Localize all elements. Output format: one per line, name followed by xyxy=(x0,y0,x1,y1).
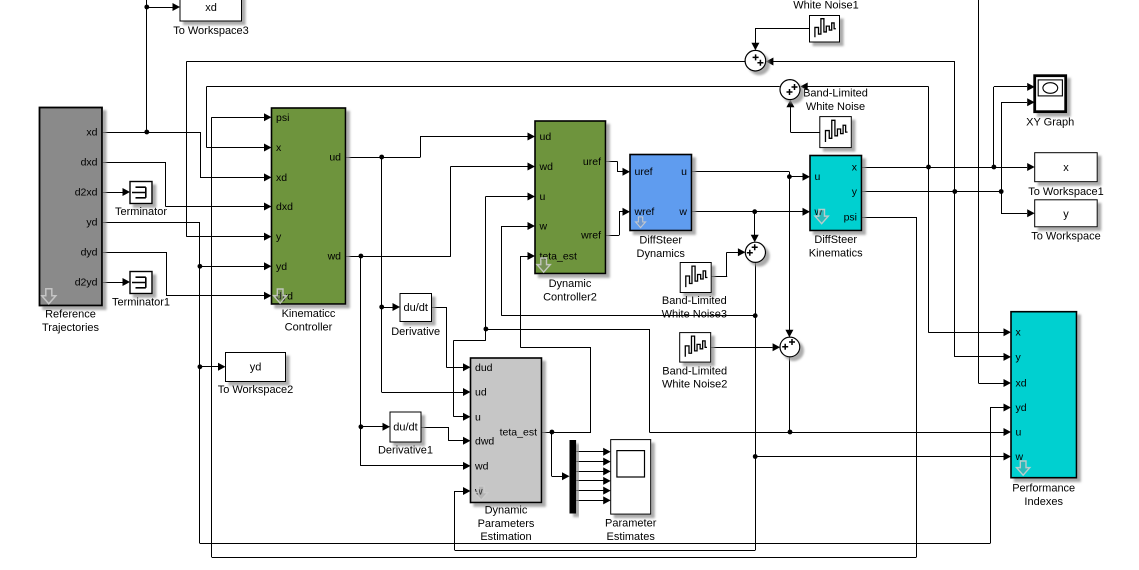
svg-text:dxd: dxd xyxy=(276,201,293,213)
svg-text:x: x xyxy=(1063,162,1069,174)
svg-text:Estimates: Estimates xyxy=(607,531,656,543)
wire d2xd from Reference to Terminator xyxy=(102,188,130,196)
label DiffSteer Kinematics xyxy=(809,234,863,259)
label Dynamic Controller2 xyxy=(543,278,597,303)
label Dynamic Parameters Estimation xyxy=(478,505,535,544)
svg-text:psi: psi xyxy=(844,212,857,224)
svg-text:Dynamic: Dynamic xyxy=(485,505,528,517)
svg-text:xd: xd xyxy=(86,127,97,139)
svg-text:u: u xyxy=(475,411,481,423)
svg-text:Band-Limited: Band-Limited xyxy=(662,365,727,377)
block DiffSteer Kinematics (subsystem) xyxy=(810,156,862,231)
wire u from DiffSteer Dynamics to DiffSteer Kinematics, Sum5, Dynamic Controller2, Dyn Param Estimation and Performance u xyxy=(454,172,1012,437)
wire w from DiffSteer Dynamics to DiffSteer Kinematics, Sum4, Dynamic Controller2, Dyn Param Estimation and Performance w xyxy=(454,208,1011,551)
wire y from DiffSteer Kinematics to XY Graph, To Workspace, Sum1, Performance y xyxy=(862,98,1035,361)
label Terminator xyxy=(115,206,167,218)
svg-text:dxd: dxd xyxy=(81,157,98,169)
svg-text:dwd: dwd xyxy=(475,435,494,447)
wire psi feedback from DiffSteer Kinematics psi output to Kinematicc psi input xyxy=(212,113,917,557)
svg-text:yd: yd xyxy=(250,362,262,374)
block Band-Limited White Noise xyxy=(820,117,852,148)
svg-text:ud: ud xyxy=(329,152,341,164)
block Parameter Estimates (scope) xyxy=(611,440,651,514)
svg-text:wd: wd xyxy=(539,161,554,173)
svg-text:Kinematics: Kinematics xyxy=(809,247,863,259)
label Derivative xyxy=(391,326,440,338)
svg-text:To Workspace1: To Workspace1 xyxy=(1028,186,1104,198)
wire Band-Limited White Noise1 to Sum1 top xyxy=(751,28,809,50)
svg-text:Performance: Performance xyxy=(1012,483,1075,495)
sum Sum2 (x + noise) xyxy=(780,80,800,100)
mux Mux (parameter bundle) xyxy=(570,440,577,514)
svg-text:To Workspace3: To Workspace3 xyxy=(173,25,249,37)
svg-text:To Workspace2: To Workspace2 xyxy=(218,384,294,396)
svg-text:w: w xyxy=(539,221,548,233)
label DiffSteer Dynamics xyxy=(637,235,686,260)
sum Sum4 (w + noise3) xyxy=(745,242,765,262)
label Band-Limited White Noise xyxy=(803,88,868,113)
svg-text:d2yd: d2yd xyxy=(75,277,98,289)
svg-text:DiffSteer: DiffSteer xyxy=(639,235,682,247)
svg-text:White Noise: White Noise xyxy=(806,101,865,113)
wire Sum2 output to Kinematicc x input xyxy=(207,87,780,152)
svg-text:Controller: Controller xyxy=(285,321,333,333)
wire Derivative output to dud input xyxy=(432,307,471,371)
block Derivative1 xyxy=(390,412,421,442)
svg-text:Derivative: Derivative xyxy=(391,326,440,338)
svg-text:Derivative1: Derivative1 xyxy=(378,445,433,457)
label Band-Limited White Noise1 (top line cropped) xyxy=(793,0,858,12)
node ud junctions xyxy=(379,155,384,310)
svg-text:yd: yd xyxy=(86,217,97,229)
label XY Graph xyxy=(1026,117,1074,129)
label Terminator1 xyxy=(112,297,170,309)
node yd junctions xyxy=(198,264,203,369)
svg-text:Indexes: Indexes xyxy=(1024,496,1063,508)
label To Workspace xyxy=(1031,230,1101,242)
svg-text:x: x xyxy=(1016,327,1022,339)
svg-text:wd: wd xyxy=(327,251,342,263)
block To Workspace3 xyxy=(180,0,242,21)
block To Workspace xyxy=(1035,200,1098,227)
svg-text:w: w xyxy=(678,206,687,218)
node y-line junctions xyxy=(952,189,1003,194)
svg-text:x: x xyxy=(852,162,858,174)
svg-text:y: y xyxy=(1063,208,1069,220)
svg-text:Dynamic: Dynamic xyxy=(549,278,592,290)
sum Sum1 (y + noise1) xyxy=(745,50,766,71)
wire wref from Dynamic Controller2 to DiffSteer Dynamics xyxy=(606,208,631,236)
label To Workspace2 xyxy=(218,384,294,396)
svg-text:Dynamics: Dynamics xyxy=(637,248,686,260)
svg-text:Estimation: Estimation xyxy=(480,531,531,543)
block Reference Trajectories (subsystem) xyxy=(40,108,103,306)
svg-text:du/dt: du/dt xyxy=(403,302,427,314)
svg-text:White Noise1: White Noise1 xyxy=(793,0,858,12)
node w junctions xyxy=(752,209,757,459)
svg-text:u: u xyxy=(540,191,546,203)
wire Band-Limited White Noise to Sum2 bottom xyxy=(786,100,819,133)
label Parameter Estimates xyxy=(605,518,657,543)
wire x from DiffSteer Kinematics to To Workspace1, XY Graph, Sum2, Performance x xyxy=(862,83,1035,336)
block Band-Limited White Noise1 xyxy=(810,16,840,43)
svg-text:ud: ud xyxy=(475,387,487,399)
svg-text:wref: wref xyxy=(580,230,601,242)
block Dynamic Parameters Estimation (subsystem) xyxy=(471,358,542,503)
svg-text:uref: uref xyxy=(635,166,653,178)
node teta_est junction xyxy=(550,430,555,435)
block Performance Indexes (subsystem) xyxy=(1011,312,1077,478)
label Derivative1 xyxy=(378,445,433,457)
svg-text:Kinematicc: Kinematicc xyxy=(282,308,336,320)
node u junctions xyxy=(484,174,793,434)
wire ud from Kinematicc to Dynamic Controller2, Derivative and Dyn Param Estimation xyxy=(346,133,536,397)
block Kinematicc Controller (subsystem) xyxy=(272,108,346,304)
block Derivative xyxy=(400,294,432,322)
node wd junctions xyxy=(359,254,364,430)
wire wd from Kinematicc to Dynamic Controller2, Derivative1 and Dyn Param Estimation xyxy=(346,163,536,470)
svg-text:Controller2: Controller2 xyxy=(543,291,597,303)
block To Workspace2 xyxy=(226,353,286,382)
label To Workspace3 xyxy=(173,25,249,37)
svg-text:Band-Limited: Band-Limited xyxy=(803,88,868,100)
svg-text:XY Graph: XY Graph xyxy=(1026,117,1074,129)
svg-text:wref: wref xyxy=(634,206,655,218)
block Band-Limited White Noise3 xyxy=(680,263,711,293)
svg-text:yd: yd xyxy=(1016,402,1027,414)
label Band-Limited White Noise2 xyxy=(662,365,727,390)
wire x-line feedback into Sum2 xyxy=(800,83,928,168)
wire Derivative1 output to dwd input xyxy=(421,427,471,445)
svg-text:u: u xyxy=(1016,427,1022,439)
wire y-line feedback into Sum1 xyxy=(766,58,955,192)
wire dyd from Reference to Kinematicc dyd input xyxy=(102,252,272,300)
svg-text:Terminator1: Terminator1 xyxy=(112,297,170,309)
node x-line junctions xyxy=(926,165,996,170)
block DiffSteer Dynamics (subsystem) xyxy=(630,155,692,231)
wire xd feed to Performance xd input xyxy=(978,0,1011,387)
svg-text:Terminator: Terminator xyxy=(115,206,167,218)
wire dxd from Reference to Kinematicc dxd input xyxy=(102,162,272,211)
block Terminator xyxy=(130,182,152,204)
svg-text:wd: wd xyxy=(474,460,489,472)
svg-text:ud: ud xyxy=(540,131,552,143)
svg-text:Band-Limited: Band-Limited xyxy=(662,295,727,307)
svg-text:DiffSteer: DiffSteer xyxy=(814,234,857,246)
svg-text:y: y xyxy=(276,231,282,243)
block Band-Limited White Noise2 xyxy=(680,333,711,363)
svg-text:xd: xd xyxy=(276,172,287,184)
svg-text:x: x xyxy=(276,142,282,154)
svg-text:psi: psi xyxy=(276,112,289,124)
svg-text:To Workspace: To Workspace xyxy=(1031,230,1101,242)
svg-text:Trajectories: Trajectories xyxy=(42,322,100,334)
wire Band-Limited White Noise3 to Sum4 xyxy=(711,248,745,277)
svg-text:White Noise2: White Noise2 xyxy=(662,379,727,391)
label To Workspace1 xyxy=(1028,186,1104,198)
wire Sum1 output to Kinematicc y input xyxy=(186,62,745,241)
svg-text:uref: uref xyxy=(583,156,601,168)
wire teta_est from Dyn Param Estimation to Dynamic Controller2 and Mux xyxy=(521,252,592,480)
wire uref from Dynamic Controller2 to DiffSteer Dynamics xyxy=(606,162,631,176)
svg-text:u: u xyxy=(815,171,821,183)
label Kinematicc Controller xyxy=(282,308,336,333)
label Performance Indexes xyxy=(1012,483,1075,508)
svg-text:teta_est: teta_est xyxy=(500,427,537,439)
svg-text:Parameter: Parameter xyxy=(605,518,657,530)
sum Sum5 (u + noise2) xyxy=(780,337,800,357)
svg-text:xd: xd xyxy=(205,2,217,14)
wire d2yd from Reference to Terminator1 xyxy=(102,278,130,286)
wire xd from Reference Trajectories to To Workspace3 and Kinematicc xd input xyxy=(102,0,272,181)
wire Band-Limited White Noise2 to Sum5 xyxy=(711,343,781,351)
wire Mux outputs to Parameter Estimates scope xyxy=(576,448,611,505)
svg-text:White Noise3: White Noise3 xyxy=(662,309,727,321)
block To Workspace1 xyxy=(1035,153,1098,182)
block Terminator1 xyxy=(130,272,152,294)
node xd junction to To Workspace3 xyxy=(144,5,149,135)
svg-text:xd: xd xyxy=(1016,378,1027,390)
block XY Graph (scope) xyxy=(1035,76,1066,112)
label Reference Trajectories xyxy=(42,309,100,334)
svg-text:dyd: dyd xyxy=(81,247,98,259)
svg-text:Reference: Reference xyxy=(45,309,96,321)
svg-text:d2xd: d2xd xyxy=(75,187,98,199)
block Dynamic Controller2 (subsystem) xyxy=(535,121,606,274)
label Band-Limited White Noise3 xyxy=(662,295,727,320)
svg-text:du/dt: du/dt xyxy=(393,422,417,434)
svg-text:Parameters: Parameters xyxy=(478,518,535,530)
svg-text:dud: dud xyxy=(475,362,493,374)
svg-text:yd: yd xyxy=(276,261,287,273)
svg-text:u: u xyxy=(681,166,687,178)
wire yd from Reference to Kinematicc yd, To Workspace2 and Performance yd xyxy=(102,222,1011,544)
svg-text:y: y xyxy=(852,186,858,198)
svg-text:y: y xyxy=(1016,351,1022,363)
